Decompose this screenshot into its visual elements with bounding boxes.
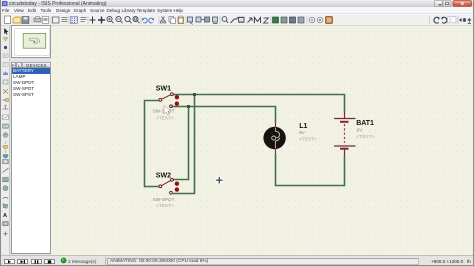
svg-text:9V: 9V: [357, 128, 364, 134]
svg-text:<TEXT>: <TEXT>: [156, 203, 174, 209]
svg-text:<TEXT>: <TEXT>: [357, 134, 375, 140]
svg-text:BAT1: BAT1: [356, 120, 374, 127]
svg-text:SW2: SW2: [156, 172, 171, 179]
svg-text:L1: L1: [299, 123, 307, 130]
svg-text:<TEXT>: <TEXT>: [299, 137, 317, 143]
svg-text:9V: 9V: [299, 130, 306, 136]
svg-text:SW1: SW1: [156, 85, 171, 92]
svg-text:A: A: [3, 213, 7, 219]
svg-text:SW-SPDT: SW-SPDT: [153, 109, 175, 115]
svg-text:SW-SPDT: SW-SPDT: [153, 197, 175, 203]
svg-text:<TEXT>: <TEXT>: [156, 116, 174, 122]
